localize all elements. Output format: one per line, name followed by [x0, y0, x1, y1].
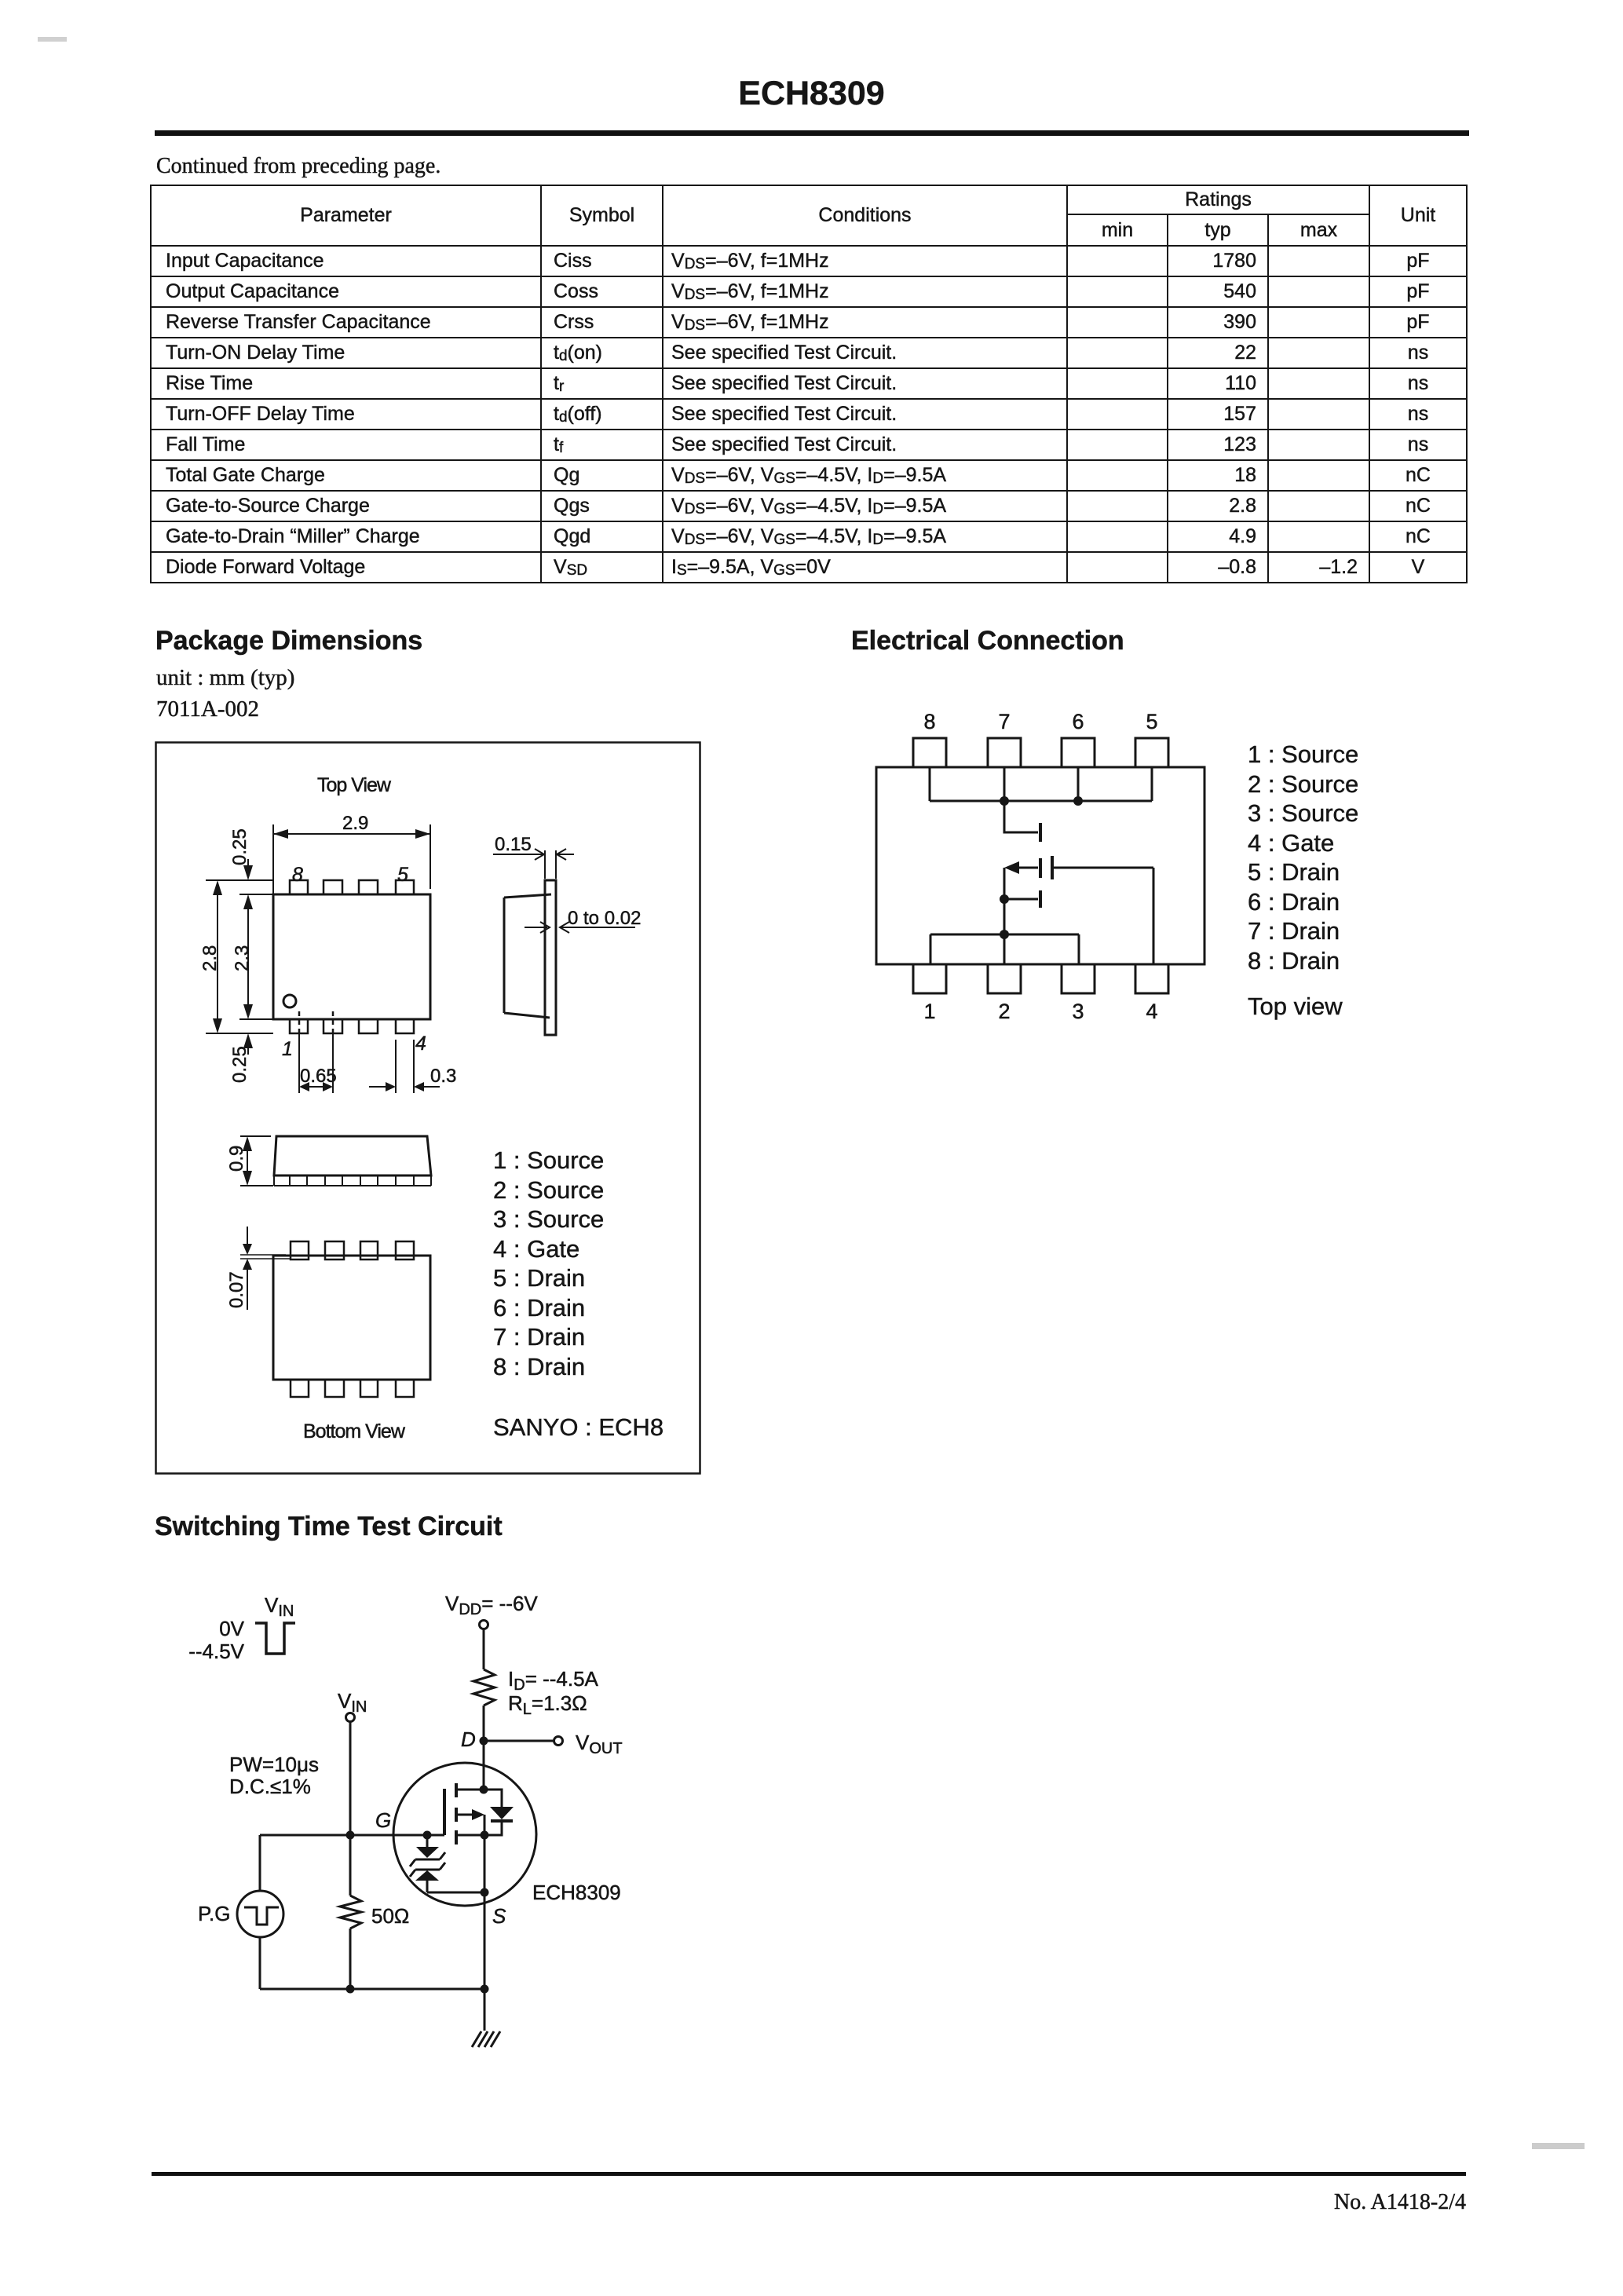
svg-text:VDD= --6V: VDD= --6V: [445, 1592, 538, 1618]
svg-text:2.9: 2.9: [342, 813, 368, 834]
svg-text:0V: 0V: [219, 1617, 244, 1640]
svg-text:0.25: 0.25: [229, 1046, 250, 1083]
svg-text:ECH8309: ECH8309: [532, 1881, 621, 1904]
svg-text:6: 6: [1072, 710, 1084, 733]
svg-text:D.C.≤1%: D.C.≤1%: [229, 1775, 311, 1798]
svg-text:--4.5V: --4.5V: [188, 1640, 244, 1663]
svg-text:0.9: 0.9: [226, 1146, 247, 1172]
svg-text:VOUT: VOUT: [576, 1731, 623, 1757]
svg-text:2.8: 2.8: [199, 945, 221, 971]
svg-text:G: G: [375, 1808, 391, 1832]
svg-text:PW=10μs: PW=10μs: [229, 1753, 319, 1776]
svg-text:2.3: 2.3: [232, 945, 253, 971]
svg-text:5: 5: [1146, 710, 1157, 733]
svg-text:2: 2: [998, 1000, 1010, 1023]
svg-text:Bottom View: Bottom View: [303, 1420, 406, 1442]
svg-text:VIN: VIN: [338, 1689, 367, 1716]
svg-text:0.3: 0.3: [430, 1066, 456, 1087]
svg-text:D: D: [461, 1727, 476, 1751]
svg-text:5: 5: [397, 864, 408, 886]
svg-text:RL=1.3Ω: RL=1.3Ω: [508, 1691, 587, 1718]
svg-text:8: 8: [292, 864, 303, 886]
svg-text:0.07: 0.07: [226, 1271, 247, 1308]
svg-text:1: 1: [923, 1000, 935, 1023]
svg-text:ID= --4.5A: ID= --4.5A: [508, 1667, 599, 1694]
svg-text:50Ω: 50Ω: [371, 1904, 409, 1928]
svg-text:7: 7: [998, 710, 1010, 733]
svg-text:0 to 0.02: 0 to 0.02: [568, 908, 641, 929]
svg-text:0.65: 0.65: [300, 1066, 337, 1087]
svg-text:3: 3: [1072, 1000, 1084, 1023]
svg-text:0.15: 0.15: [495, 834, 532, 855]
svg-text:8: 8: [923, 710, 935, 733]
svg-text:P.G: P.G: [198, 1902, 230, 1925]
svg-text:4: 4: [1146, 1000, 1157, 1023]
svg-text:0.25: 0.25: [229, 828, 250, 865]
svg-text:4: 4: [415, 1033, 426, 1055]
svg-text:S: S: [492, 1904, 506, 1928]
svg-text:1: 1: [282, 1038, 293, 1060]
svg-text:Top View: Top View: [317, 774, 392, 796]
svg-text:VIN: VIN: [265, 1593, 294, 1620]
